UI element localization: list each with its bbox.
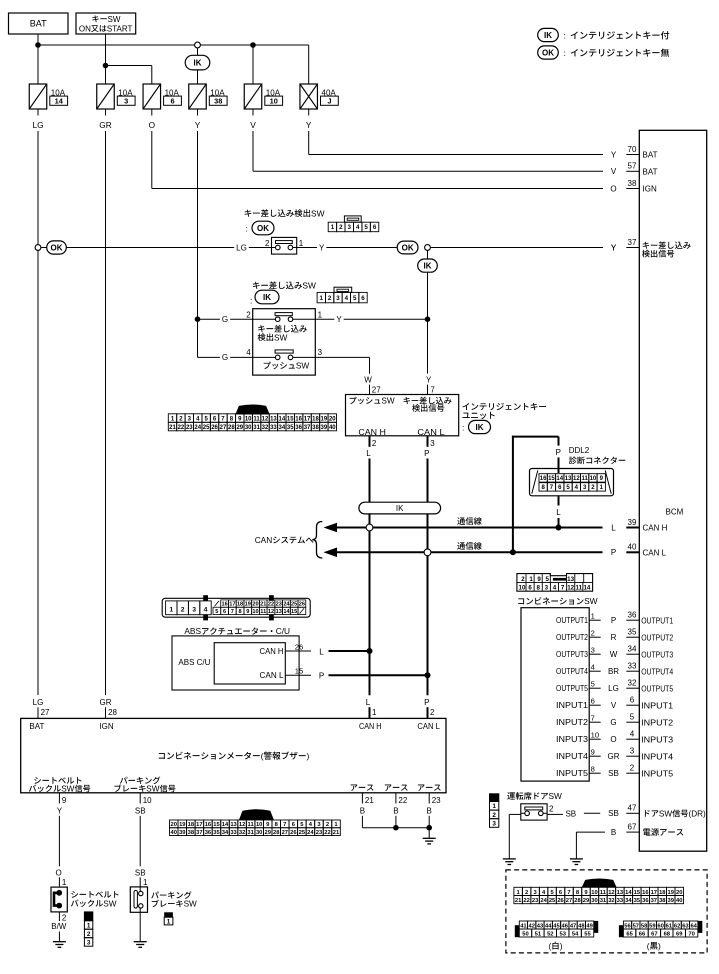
svg-text:11: 11 — [581, 476, 588, 482]
svg-text:38: 38 — [214, 97, 222, 106]
svg-text:7: 7 — [567, 890, 570, 896]
svg-text:32: 32 — [608, 898, 614, 904]
svg-text:22: 22 — [523, 898, 529, 904]
wire IK variant down to key SW block — [427, 272, 429, 319]
wire G to key-in SW pin2 — [198, 318, 253, 320]
connector combination SW 14pin — [517, 574, 593, 592]
svg-text:24: 24 — [283, 602, 290, 608]
brace CAN system — [312, 522, 322, 559]
svg-text:): ) — [560, 941, 563, 951]
wire BAT to bus — [37, 34, 39, 45]
svg-text:8: 8 — [536, 584, 540, 591]
svg-text:45: 45 — [553, 923, 560, 929]
BCM pin 35 OUTPUT2 — [626, 636, 639, 638]
svg-text:24: 24 — [307, 830, 314, 836]
svg-text:49: 49 — [586, 923, 593, 929]
combination meter box — [21, 718, 446, 792]
BCM pin 37 — [626, 247, 639, 249]
svg-text:OK: OK — [257, 224, 269, 233]
junction DDL2 P / CAN L line — [510, 549, 516, 555]
svg-text:13: 13 — [270, 417, 277, 423]
svg-text:ON: ON — [79, 24, 91, 33]
connector 3pin seat belt — [84, 912, 92, 921]
svg-text:OUTPUT5: OUTPUT5 — [556, 684, 588, 693]
svg-text:J: J — [327, 97, 331, 106]
svg-text:10: 10 — [519, 584, 526, 591]
svg-text:2: 2 — [521, 576, 525, 583]
fuse 10A 38 — [189, 84, 207, 109]
svg-text:25: 25 — [549, 898, 556, 904]
switch box key-in SW / push SW — [253, 309, 316, 375]
fusible link 40A J — [300, 84, 318, 109]
svg-text:SW: SW — [302, 281, 316, 291]
svg-text:Y: Y — [336, 315, 342, 324]
svg-text:47: 47 — [570, 923, 576, 929]
svg-text:1: 1 — [320, 295, 324, 302]
svg-text:20: 20 — [171, 822, 177, 828]
meter pin 22 — [395, 793, 397, 804]
svg-text:B: B — [360, 806, 365, 815]
svg-text:OUTPUT1: OUTPUT1 — [556, 616, 588, 625]
wire Y down into IK unit pin7 — [427, 319, 429, 373]
svg-text::: : — [462, 422, 464, 432]
svg-text:38: 38 — [628, 179, 637, 188]
svg-text:BAT: BAT — [30, 19, 47, 29]
svg-text:SW: SW — [549, 791, 563, 801]
svg-text:P: P — [319, 672, 324, 681]
svg-text:21: 21 — [169, 425, 176, 431]
svg-text:33: 33 — [628, 662, 637, 671]
svg-text:14: 14 — [583, 584, 590, 591]
svg-text:3: 3 — [591, 646, 595, 655]
svg-text:INPUT5: INPUT5 — [641, 769, 674, 778]
svg-text:40: 40 — [676, 898, 682, 904]
svg-text:3: 3 — [492, 820, 496, 827]
svg-text:INPUT3: INPUT3 — [641, 735, 674, 744]
svg-text:1: 1 — [143, 878, 148, 887]
svg-text:55: 55 — [584, 931, 591, 937]
svg-text:58: 58 — [641, 923, 648, 929]
svg-text:7: 7 — [283, 822, 286, 828]
svg-text:3: 3 — [348, 224, 352, 231]
svg-text:IGN: IGN — [99, 722, 113, 731]
svg-text:25: 25 — [291, 602, 297, 608]
svg-text:LG: LG — [32, 120, 43, 130]
svg-text:33: 33 — [230, 830, 237, 836]
variant circle CAN H / L wire — [366, 524, 373, 531]
label combination SW — [518, 598, 524, 604]
svg-text:11: 11 — [260, 609, 266, 615]
svg-text:3: 3 — [192, 607, 196, 614]
svg-text:47: 47 — [628, 804, 637, 813]
svg-text:4: 4 — [553, 584, 557, 591]
bus wire — [38, 44, 309, 46]
svg-text:2: 2 — [181, 607, 185, 614]
svg-text:35: 35 — [628, 628, 637, 637]
junction ABS CAN L — [425, 672, 431, 678]
svg-text:2: 2 — [372, 439, 377, 448]
junction fuse38 wire / key-in detection SW pin2 wire — [195, 316, 201, 322]
wire P to DDL2 diagnostic connector — [512, 436, 514, 553]
BCM pin 33 OUTPUT4 — [626, 670, 639, 672]
svg-text:6: 6 — [223, 609, 226, 615]
BCM pin 40 — [626, 551, 639, 553]
wire P ABS to CAN L vertical — [329, 674, 428, 676]
svg-text:P: P — [424, 449, 429, 458]
svg-text:17: 17 — [651, 890, 657, 896]
svg-text:37: 37 — [196, 830, 202, 836]
switch driver door SW — [521, 804, 547, 820]
svg-text:13: 13 — [276, 609, 282, 615]
svg-text:51: 51 — [535, 931, 542, 937]
control unit ABS C/U box — [172, 636, 299, 690]
svg-text:IK: IK — [396, 504, 404, 513]
svg-text:V: V — [611, 167, 617, 176]
svg-text:SW: SW — [659, 809, 672, 818]
svg-text:L: L — [611, 523, 616, 532]
svg-text:27: 27 — [220, 425, 227, 431]
wire W from push SW pin3 — [315, 356, 369, 358]
variant oval OK on wire — [397, 241, 418, 254]
svg-text:2: 2 — [591, 629, 595, 638]
svg-text:2: 2 — [265, 239, 270, 248]
svg-text:19: 19 — [668, 890, 675, 896]
ABS connector lock tabs — [203, 595, 208, 601]
svg-text:CAN H: CAN H — [358, 428, 386, 437]
svg-text:35: 35 — [213, 830, 220, 836]
wire key SW down — [105, 34, 107, 84]
fuse 10A 6 — [143, 84, 161, 109]
variant circle OK on LG wire — [35, 245, 41, 251]
svg-text:21: 21 — [260, 602, 266, 608]
svg-text:1: 1 — [167, 918, 171, 925]
svg-text:SW: SW — [103, 899, 116, 908]
BCM pin 6 INPUT1 — [626, 704, 639, 706]
svg-text:64: 64 — [690, 923, 697, 929]
svg-text:6: 6 — [373, 224, 377, 231]
svg-text:27: 27 — [282, 830, 288, 836]
svg-text:7: 7 — [561, 584, 565, 591]
svg-text:): ) — [658, 941, 661, 951]
fuse 10A 3 — [97, 84, 115, 109]
svg-text:19: 19 — [179, 822, 186, 828]
svg-text:IK: IK — [263, 293, 271, 302]
svg-text:INPUT2: INPUT2 — [641, 718, 674, 727]
svg-text:25: 25 — [299, 830, 306, 836]
svg-text:CAN H: CAN H — [643, 524, 668, 533]
svg-text:1: 1 — [492, 803, 496, 810]
variant oval IK — [185, 55, 210, 70]
svg-text:5: 5 — [630, 713, 635, 722]
svg-text:29: 29 — [236, 425, 243, 431]
wire CAN H horizontal — [335, 527, 603, 529]
svg-text:26: 26 — [290, 830, 297, 836]
BCM pin 34 OUTPUT3 — [626, 653, 639, 655]
svg-text:57: 57 — [633, 923, 639, 929]
svg-text:OK: OK — [402, 243, 414, 252]
fuse 10A 14 — [29, 84, 47, 109]
svg-text:L: L — [366, 698, 371, 707]
svg-text:16: 16 — [295, 417, 302, 423]
svg-text:25: 25 — [203, 425, 210, 431]
svg-text:LG: LG — [33, 698, 44, 707]
svg-text:62: 62 — [674, 923, 680, 929]
svg-text:36: 36 — [628, 611, 637, 620]
wire G to push SW pin4 — [198, 356, 253, 358]
connector black 56-70 — [619, 925, 624, 937]
svg-text:15: 15 — [548, 476, 555, 482]
svg-text:L: L — [556, 508, 561, 517]
IK unit pin2 CAN H stub — [369, 436, 371, 447]
svg-text:22: 22 — [178, 425, 185, 431]
svg-text:O: O — [610, 184, 616, 193]
variant oval OK row1 — [41, 247, 47, 249]
svg-text:20: 20 — [329, 417, 336, 423]
svg-text:INPUT3: INPUT3 — [556, 735, 589, 744]
svg-text:16: 16 — [221, 602, 227, 608]
svg-text:17: 17 — [196, 822, 202, 828]
connector 40pin (dashed box) — [582, 878, 617, 887]
svg-text:10: 10 — [270, 97, 278, 106]
BCM pin37 label key-in detection signal — [643, 242, 650, 249]
svg-text:CAN: CAN — [255, 535, 273, 545]
svg-text:2: 2 — [246, 310, 251, 319]
svg-text:42: 42 — [528, 923, 534, 929]
svg-text:15: 15 — [287, 417, 294, 423]
svg-text:23: 23 — [316, 830, 323, 836]
svg-text:W: W — [364, 375, 372, 384]
svg-text:1: 1 — [299, 239, 304, 248]
svg-text:Y: Y — [426, 375, 432, 384]
svg-text:10: 10 — [591, 731, 599, 740]
svg-text:CAN L: CAN L — [260, 671, 285, 680]
svg-text:34: 34 — [222, 830, 229, 836]
wire branch to fuse 6 — [106, 65, 152, 67]
svg-text:10: 10 — [252, 609, 258, 615]
svg-text:38: 38 — [312, 425, 319, 431]
junction key SW branch — [103, 63, 109, 69]
legend oval OK — [538, 46, 559, 59]
svg-text:13: 13 — [230, 822, 237, 828]
svg-text:4: 4 — [591, 663, 595, 672]
svg-text:14: 14 — [556, 476, 563, 482]
svg-text:P: P — [611, 548, 616, 557]
svg-text:P: P — [556, 448, 561, 457]
svg-text:14: 14 — [55, 97, 64, 106]
wire Y meter pin9 to seat belt SW — [58, 816, 60, 867]
ground meter — [423, 837, 436, 839]
svg-text:14: 14 — [222, 822, 229, 828]
junction IK wire / key SW pin1 wire — [425, 316, 431, 322]
BCM pin 57 — [626, 170, 639, 172]
svg-text:32: 32 — [628, 679, 637, 688]
svg-text:39: 39 — [668, 898, 675, 904]
svg-text:3: 3 — [87, 939, 91, 946]
svg-text:1: 1 — [372, 708, 377, 717]
svg-text:27: 27 — [41, 708, 50, 717]
svg-text:O: O — [610, 735, 616, 744]
svg-text:31: 31 — [247, 830, 254, 836]
svg-text:Y: Y — [57, 806, 63, 815]
BCM pin 67 — [626, 831, 639, 833]
junction ABS CAN H — [367, 648, 373, 654]
label seat belt buckle SW — [71, 891, 78, 898]
svg-text:39: 39 — [179, 830, 186, 836]
svg-text:26: 26 — [299, 602, 305, 608]
meter bottom labels — [34, 777, 41, 784]
wire LG row1 — [66, 247, 271, 249]
wire stub + color label GR — [105, 109, 107, 116]
svg-text:21: 21 — [365, 796, 374, 805]
svg-text:BAT: BAT — [29, 722, 44, 731]
svg-text:OUTPUT4: OUTPUT4 — [556, 667, 588, 676]
wire stub + color label LG — [37, 109, 39, 116]
label intelligent key unit — [462, 403, 469, 410]
svg-text:(DR): (DR) — [689, 809, 707, 818]
svg-text:21: 21 — [333, 830, 340, 836]
wire LG vertical (fuse14 to meter) — [37, 131, 39, 245]
svg-text:1: 1 — [591, 612, 595, 621]
svg-text:SB: SB — [135, 806, 146, 815]
BCM pin 5 INPUT2 — [626, 721, 639, 723]
svg-text:32: 32 — [239, 830, 245, 836]
connector 1pin parking brake — [164, 912, 173, 917]
svg-text:33: 33 — [270, 425, 277, 431]
svg-text:70: 70 — [628, 145, 637, 154]
svg-text:37: 37 — [628, 238, 637, 247]
wire stub + color label O — [151, 109, 153, 116]
ground parking brake — [134, 941, 147, 943]
svg-text:OUTPUT1: OUTPUT1 — [641, 616, 673, 625]
wire stub + color label Y — [308, 109, 310, 116]
svg-text:43: 43 — [537, 923, 544, 929]
svg-text:38: 38 — [188, 830, 195, 836]
svg-text:65: 65 — [626, 931, 633, 937]
arrow to CAN system (CAN L) — [324, 548, 338, 558]
svg-text:26: 26 — [211, 425, 218, 431]
svg-text:40: 40 — [628, 543, 637, 552]
svg-text:39: 39 — [321, 425, 328, 431]
svg-text:SB: SB — [608, 769, 619, 778]
svg-text:68: 68 — [664, 931, 671, 937]
svg-text:20: 20 — [676, 890, 682, 896]
label push SW inside box — [264, 362, 271, 369]
BCM pin 47 — [626, 812, 639, 814]
svg-text:BAT: BAT — [643, 151, 658, 160]
label communication line 2 — [457, 542, 465, 549]
svg-text:22: 22 — [324, 830, 330, 836]
svg-text:29: 29 — [264, 830, 271, 836]
svg-text:(: ( — [549, 941, 552, 951]
svg-text:SB: SB — [608, 809, 619, 818]
svg-text:30: 30 — [245, 425, 252, 431]
meter pin 10 — [139, 793, 141, 804]
svg-text:16: 16 — [642, 890, 649, 896]
svg-text:13: 13 — [617, 890, 624, 896]
svg-text:34: 34 — [278, 425, 285, 431]
svg-text:OUTPUT5: OUTPUT5 — [641, 684, 673, 693]
svg-text:G: G — [222, 353, 228, 362]
svg-text:36: 36 — [295, 425, 302, 431]
svg-text:CAN H: CAN H — [260, 647, 284, 656]
svg-text:10: 10 — [143, 796, 152, 805]
svg-text:INPUT4: INPUT4 — [556, 752, 589, 761]
svg-text:IK: IK — [476, 423, 484, 432]
svg-text:57: 57 — [628, 162, 637, 171]
svg-text:18: 18 — [659, 890, 666, 896]
svg-text:SB: SB — [565, 810, 576, 819]
svg-text:12: 12 — [573, 476, 580, 482]
label parking brake SW — [151, 891, 159, 898]
svg-text:5: 5 — [364, 224, 368, 231]
wire Y from fuse38 down to key switch block — [197, 131, 199, 357]
svg-text:START: START — [107, 24, 133, 33]
control unit BCM box — [639, 130, 706, 851]
svg-text:34: 34 — [625, 898, 632, 904]
svg-text:G: G — [610, 718, 616, 727]
svg-text:4: 4 — [630, 730, 635, 739]
svg-text:41: 41 — [520, 923, 527, 929]
svg-text:12: 12 — [262, 417, 269, 423]
svg-text:3: 3 — [336, 295, 340, 302]
svg-text:12: 12 — [239, 822, 245, 828]
legend oval IK — [538, 28, 559, 41]
svg-text:B: B — [427, 806, 432, 815]
variant oval IK below row1 — [427, 250, 429, 259]
svg-text:13: 13 — [565, 476, 572, 482]
svg-text:20: 20 — [252, 602, 258, 608]
wire B ground to BCM pin67 — [576, 831, 605, 833]
svg-text:9: 9 — [62, 796, 67, 805]
svg-text:SW: SW — [108, 15, 121, 24]
IK unit pin3 CAN L stub — [427, 436, 429, 447]
svg-text:Y: Y — [319, 243, 325, 252]
svg-text:24: 24 — [540, 898, 547, 904]
svg-text:16: 16 — [540, 476, 547, 482]
svg-text:GR: GR — [608, 752, 620, 761]
svg-text:40: 40 — [329, 425, 336, 431]
svg-text:14: 14 — [278, 417, 285, 423]
svg-text:15: 15 — [291, 609, 297, 615]
connector 6pin (row2) — [334, 287, 352, 292]
svg-text:V: V — [250, 120, 256, 130]
meter ground wiring — [361, 816, 363, 828]
wire door SW to ground — [509, 813, 521, 815]
svg-text:INPUT5: INPUT5 — [556, 769, 589, 778]
svg-text:14: 14 — [283, 609, 290, 615]
svg-text:15: 15 — [634, 890, 641, 896]
svg-text:70: 70 — [688, 931, 694, 937]
wire L ABS to CAN H vertical — [329, 650, 370, 652]
svg-text::: : — [564, 30, 566, 40]
svg-text:INPUT1: INPUT1 — [641, 701, 674, 710]
svg-text:31: 31 — [253, 425, 260, 431]
svg-text:52: 52 — [547, 931, 553, 937]
svg-text:39: 39 — [628, 518, 637, 527]
variant capsule IK over CAN wires — [359, 502, 441, 514]
svg-text:12: 12 — [268, 609, 274, 615]
svg-text:INPUT1: INPUT1 — [556, 701, 589, 710]
svg-text:26: 26 — [557, 898, 564, 904]
svg-text:27: 27 — [566, 898, 572, 904]
control unit intelligent key unit box — [346, 395, 459, 436]
svg-text:DDL2: DDL2 — [569, 446, 590, 455]
svg-text:29: 29 — [583, 898, 590, 904]
meter pin 23 — [428, 793, 430, 804]
svg-text:4: 4 — [204, 607, 208, 614]
svg-text:2: 2 — [430, 708, 435, 717]
label communication line 1 — [457, 517, 465, 524]
